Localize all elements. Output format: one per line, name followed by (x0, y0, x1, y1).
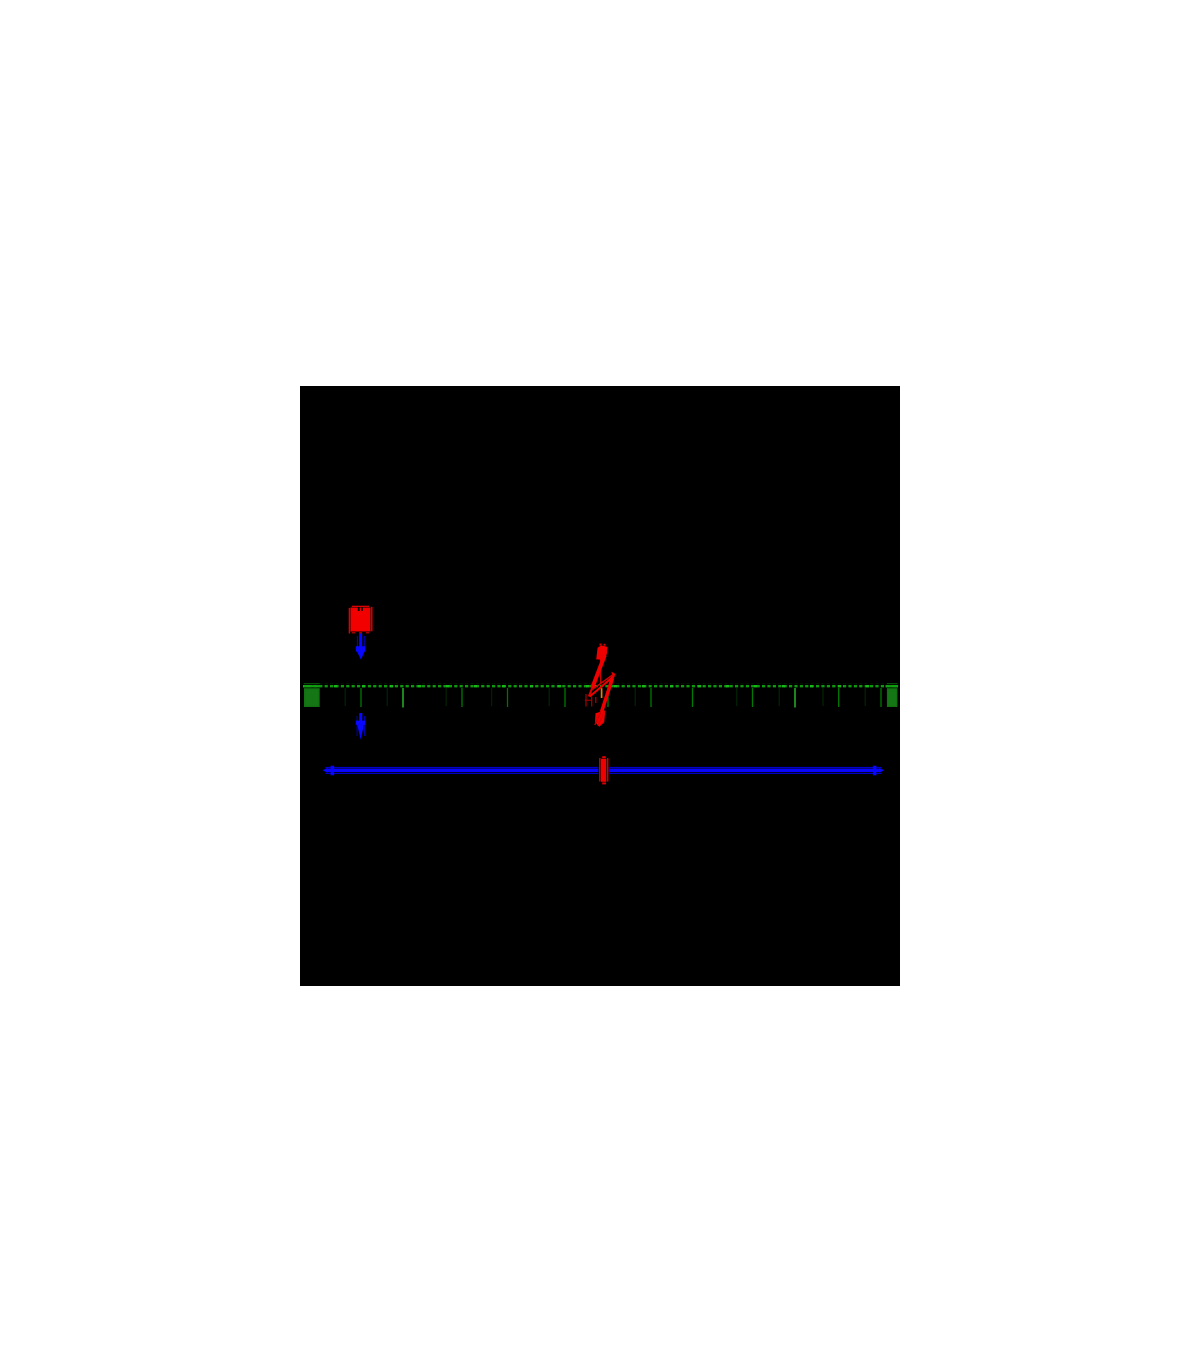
canvas (300, 386, 900, 986)
span arrow (323, 766, 885, 776)
left end block (303, 683, 320, 707)
center slider (598, 756, 608, 784)
lower arrow down (356, 713, 366, 740)
right end block (886, 683, 899, 707)
string dashed line (303, 684, 898, 687)
ruler ticks bright (361, 688, 881, 708)
hammer block (349, 606, 373, 634)
ruler ticks ghost (345, 688, 865, 706)
lightning bolt (585, 644, 616, 727)
hammer arrow down (356, 634, 366, 660)
